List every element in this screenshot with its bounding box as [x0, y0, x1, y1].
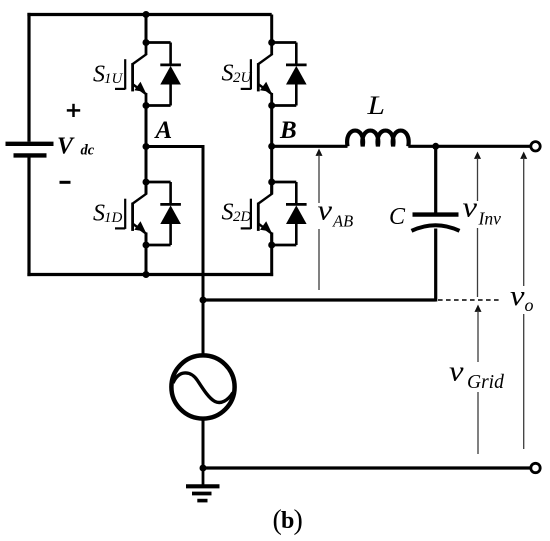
capacitor C	[412, 215, 460, 231]
measurement arrow vo	[520, 152, 527, 450]
wire left DC link lower	[27, 155, 30, 276]
svg-text:): )	[294, 505, 303, 536]
node B junction dot	[268, 143, 275, 150]
junction dot (collector of S2D)	[268, 179, 275, 186]
wire leg2 mid (S2U emitter to node B to S2D)	[270, 106, 273, 194]
junction dot (collector of S2U)	[268, 39, 275, 46]
svg-text:2U: 2U	[233, 70, 253, 86]
svg-text:v: v	[510, 281, 525, 312]
battery Vdc negative plate	[14, 153, 47, 157]
wire left DC link upper	[27, 13, 30, 142]
svg-text:v: v	[449, 357, 464, 388]
transistor S1D	[115, 182, 147, 245]
measurement arrow vGrid	[475, 305, 482, 455]
junction dot (cap return)	[200, 297, 207, 304]
svg-text:o: o	[525, 295, 534, 315]
junction dot (collector of S1U)	[143, 39, 150, 46]
junction dot (collector of S1D)	[143, 179, 150, 186]
wire cap bottom	[434, 229, 437, 302]
ground	[186, 468, 220, 501]
measurement arrow vAB	[316, 149, 323, 291]
svg-text:AB: AB	[332, 212, 353, 231]
transistor S1U	[115, 43, 147, 106]
wire grid branch vertical (crosses DC bus, to AC source)	[202, 145, 205, 356]
svg-text:1D: 1D	[104, 210, 123, 226]
measurement arrow vInv	[474, 152, 481, 298]
wire ground node to bottom terminal	[203, 466, 531, 469]
dashed reference line for vo	[438, 299, 500, 301]
svg-text:1U: 1U	[104, 71, 124, 87]
ac source Vgrid	[171, 355, 234, 418]
svg-text:B: B	[279, 117, 297, 144]
svg-text:Grid: Grid	[467, 372, 504, 393]
wire leg2 bottom (S2D emitter to bus)	[270, 233, 273, 277]
wire leg1 bottom (S1D emitter to bus)	[145, 233, 148, 275]
wire cap return to grid branch	[203, 298, 436, 301]
label vAB	[313, 196, 357, 231]
terminal bottom output (open circle)	[531, 463, 540, 472]
diode antiparallel with S2D	[272, 182, 307, 245]
svg-text:C: C	[389, 204, 406, 230]
junction dot (emitter of S1D)	[143, 242, 150, 249]
svg-text:dc: dc	[81, 143, 95, 159]
svg-text:v: v	[463, 193, 478, 224]
transistor S2U	[241, 43, 273, 106]
wire cap top	[434, 146, 437, 212]
svg-text:S: S	[222, 61, 234, 87]
wire inductor to output terminal	[408, 145, 531, 148]
label plus	[67, 104, 80, 117]
wire node A to grid branch (horizontal)	[146, 145, 203, 148]
junction dot (emitter of S1U)	[143, 102, 150, 109]
svg-text:Inv: Inv	[478, 209, 502, 229]
terminal top output (open circle)	[531, 142, 540, 151]
svg-text:A: A	[154, 117, 173, 144]
label vInv	[460, 193, 504, 229]
label minus	[60, 181, 71, 184]
svg-text:2D: 2D	[233, 209, 252, 225]
diode antiparallel with S1D	[146, 182, 181, 245]
transistor S2D	[241, 182, 273, 245]
svg-text:S: S	[222, 200, 234, 226]
wire leg2 top (bus to S2U)	[270, 15, 273, 43]
node A junction dot	[143, 143, 150, 150]
label vo	[505, 281, 543, 315]
wire leg1 mid (S1U emitter to node A to S1D)	[145, 106, 148, 194]
svg-text:L: L	[366, 91, 385, 120]
wire top DC bus	[27, 13, 271, 16]
junction dot (emitter of S2D)	[268, 242, 275, 249]
svg-text:V: V	[57, 134, 75, 160]
junction dot (emitter of S2U)	[268, 102, 275, 109]
junction dot (leg1 on top bus)	[143, 11, 150, 18]
battery Vdc positive plate	[6, 142, 54, 146]
svg-text:v: v	[318, 196, 333, 227]
junction dot (ground node)	[200, 465, 207, 472]
diode antiparallel with S2U	[272, 43, 307, 106]
wire AC source to ground junction	[202, 419, 205, 469]
label vGrid	[444, 357, 505, 394]
inductor L	[347, 131, 409, 147]
wire bottom DC bus	[27, 273, 273, 276]
wire node B to inductor	[272, 145, 348, 148]
diode antiparallel with S1U	[146, 43, 181, 106]
junction dot (filter cap tap)	[432, 143, 439, 150]
junction dot (leg1 on bottom bus)	[143, 271, 150, 278]
wire leg1 top (bus to S1U)	[145, 15, 148, 43]
svg-text:b: b	[281, 508, 294, 534]
